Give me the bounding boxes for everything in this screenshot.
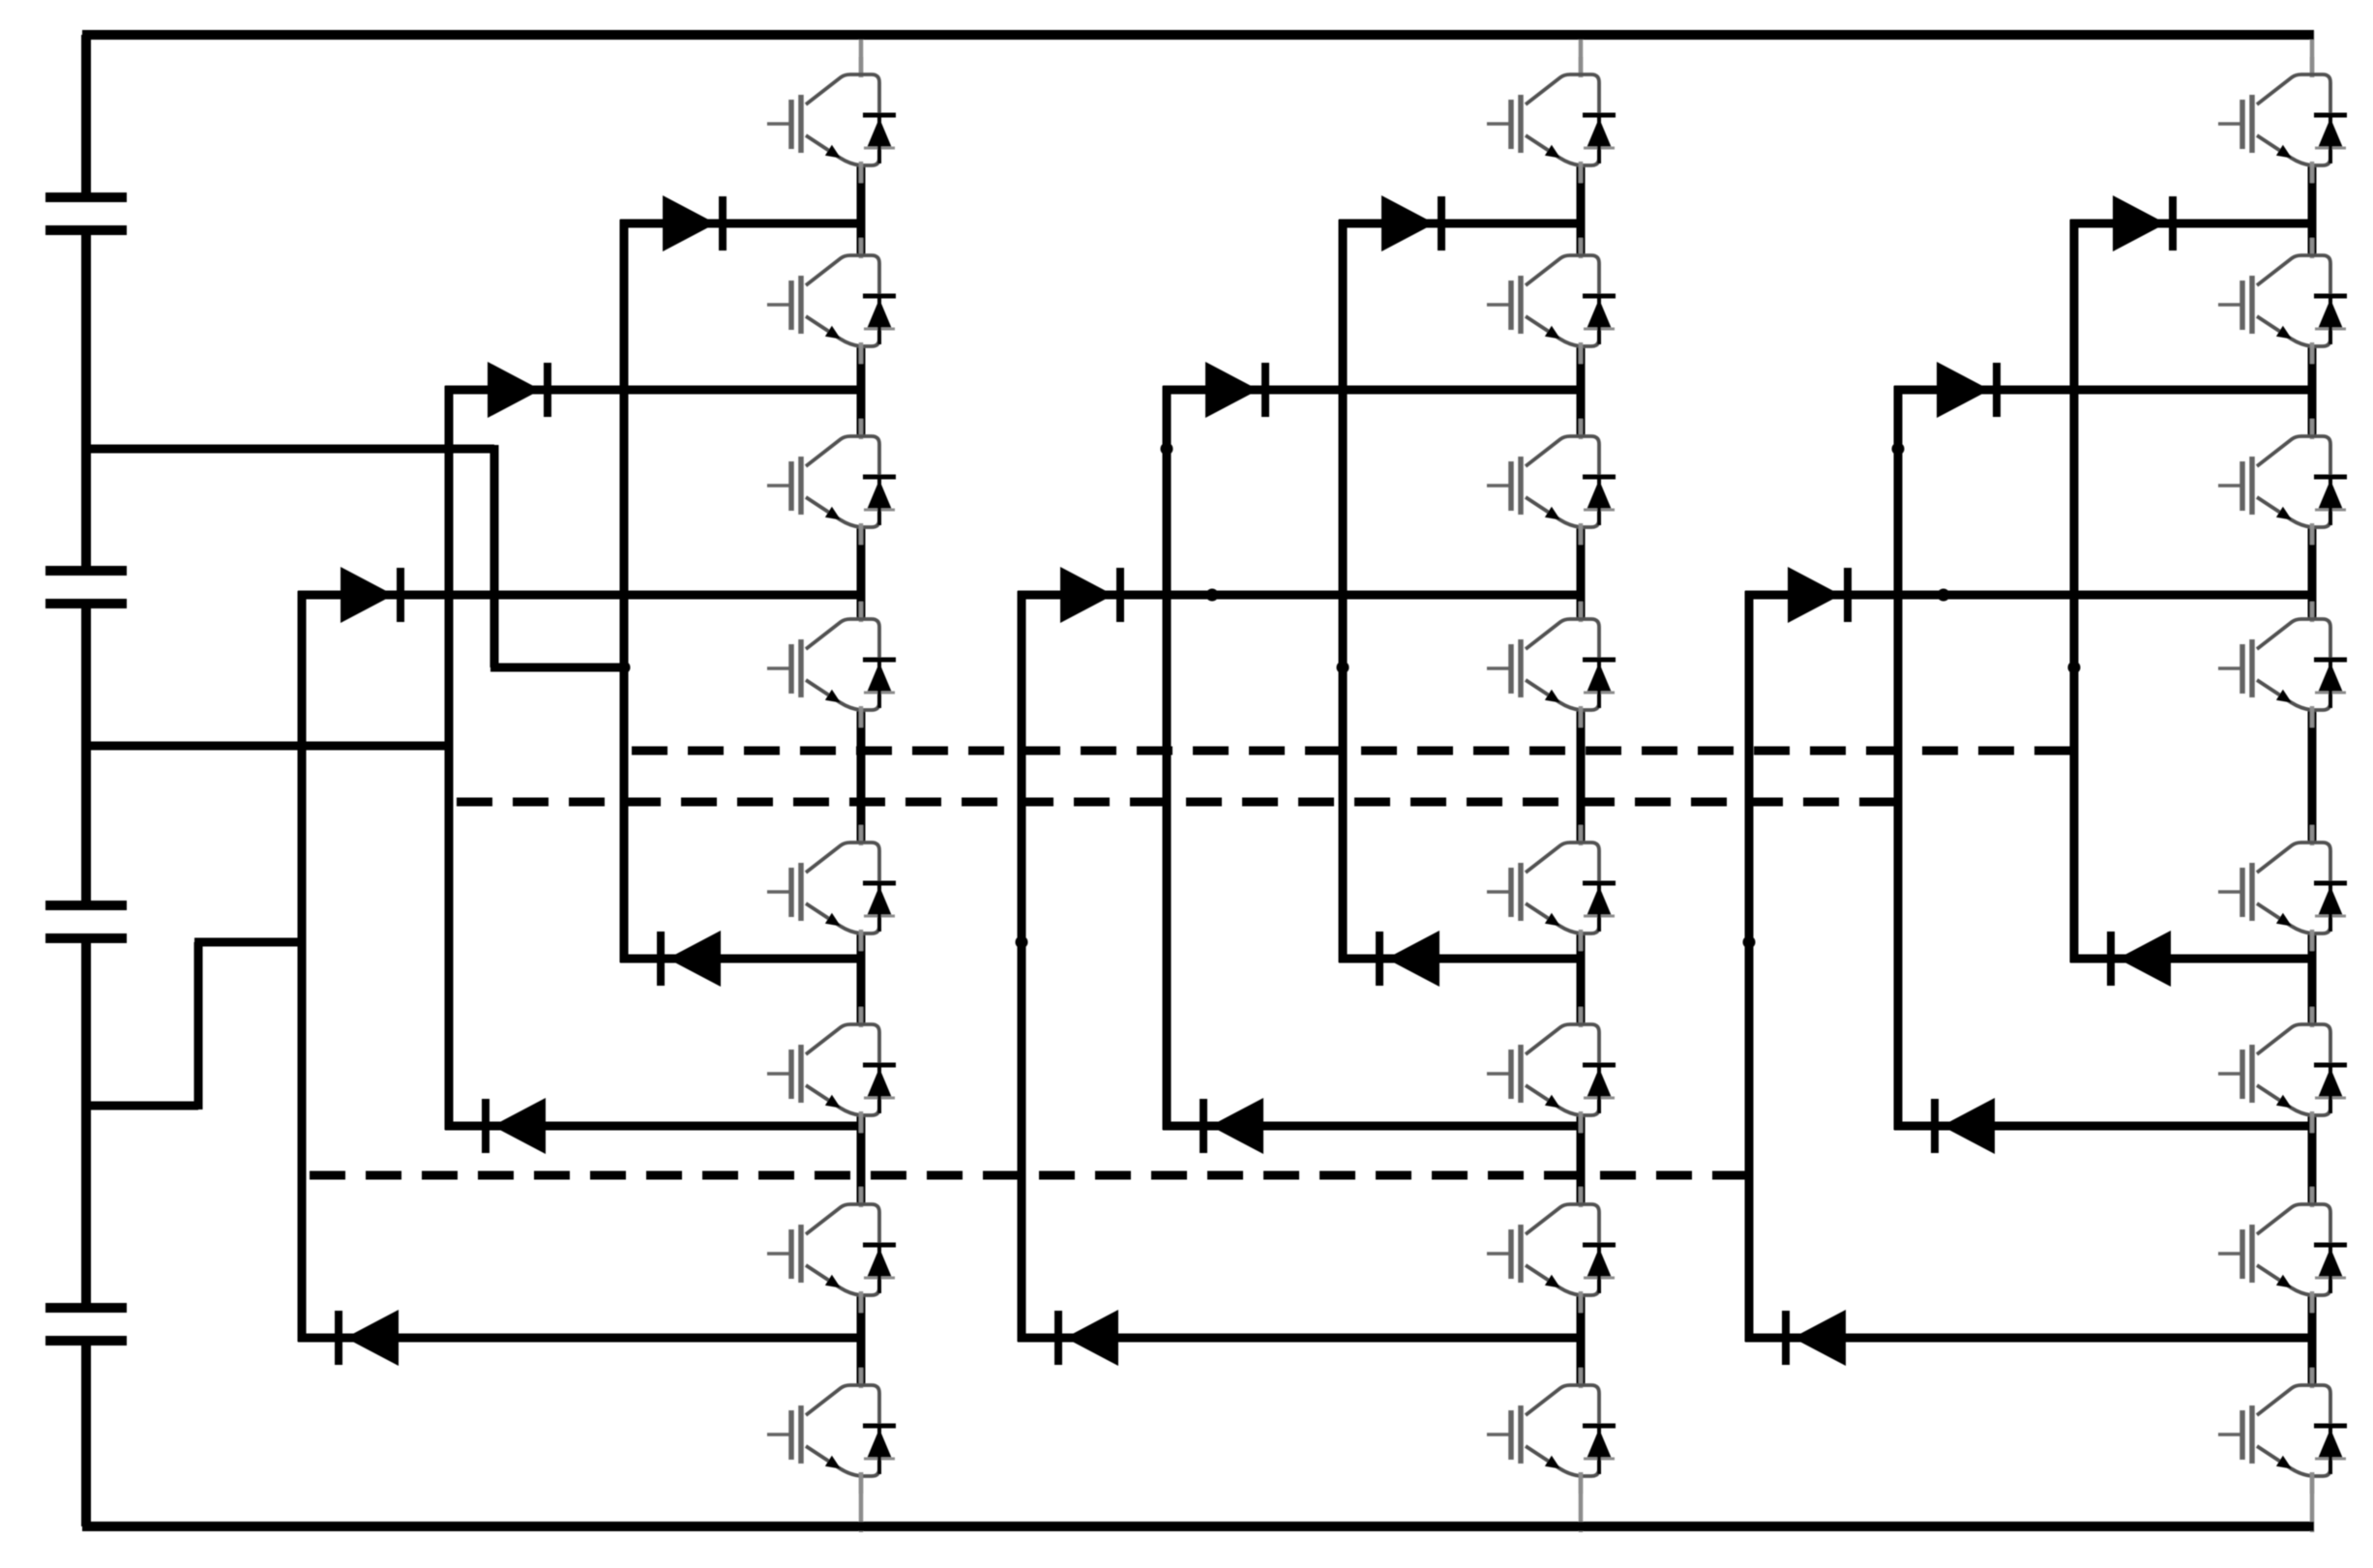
- wire: leg a segment through J2: [857, 345, 866, 436]
- diode Dc6 (clamp from J7): [1786, 1310, 1846, 1366]
- transistor Qb6 (IGBT with antiparallel diode): [1487, 1007, 1616, 1133]
- diode Db2 (clamp to J2): [1205, 362, 1265, 418]
- diode Db3 (clamp to J3): [1060, 567, 1120, 623]
- transistor Qa7 (IGBT with antiparallel diode): [767, 1187, 896, 1313]
- wire: row J3 leg b: [1018, 591, 1581, 600]
- wire: clamp vertical pair3 leg b: [1018, 591, 1026, 1342]
- wire: leg c segment through J2: [2308, 345, 2317, 436]
- wire: V1 jog horizontal to pair3: [194, 938, 306, 947]
- wire: row J5 leg a: [620, 955, 861, 963]
- transistor Qc4 (IGBT with antiparallel diode): [2218, 602, 2347, 727]
- transistor Qa5 (IGBT with antiparallel diode): [767, 825, 896, 951]
- diode Dc2 (clamp to J2): [1937, 362, 1997, 418]
- wire: leg b segment through J3: [1577, 526, 1586, 619]
- wire: leg a segment through J7: [857, 1294, 866, 1385]
- wire: V3 jog horizontal to pair1: [490, 664, 624, 672]
- transistor Qa6 (IGBT with antiparallel diode): [767, 1007, 896, 1133]
- transistor Qa2 (IGBT with antiparallel diode): [767, 238, 896, 364]
- wire: row J1 leg b: [1339, 220, 1581, 228]
- wire: clamp vertical pair3 leg a: [298, 591, 307, 1342]
- wire: top DC bus: [82, 30, 2314, 40]
- wire: leg b segment through J5: [1577, 932, 1586, 1024]
- capacitor C4: [45, 1303, 127, 1313]
- node dot: leg c row J3: [1938, 589, 1950, 602]
- node V2: tap wire from bus to pair2: [82, 742, 453, 751]
- wire: clamp vertical pair1 leg c: [2070, 220, 2079, 962]
- wire: row J6 leg b: [1163, 1122, 1581, 1131]
- node dot: leg b pair1: [1337, 662, 1350, 674]
- wire: row J7 leg c: [1745, 1334, 2312, 1343]
- wire: row J1 leg a: [620, 220, 861, 228]
- wire: V3 jog vertical: [490, 445, 499, 667]
- capacitor C1: [45, 192, 127, 202]
- wire: leg c segment through J6: [2308, 1114, 2317, 1204]
- wire: row J1 leg c: [2070, 220, 2312, 228]
- wire: left DC bus C1-C2: [81, 230, 91, 571]
- transistor Qa1 (IGBT with antiparallel diode): [767, 57, 896, 183]
- wire: left DC bus C2-C3: [81, 604, 91, 905]
- wire: row J6 leg a: [445, 1122, 861, 1131]
- wire: leg c segment through J7: [2308, 1294, 2317, 1385]
- diode Da1 (clamp to J1): [663, 195, 723, 251]
- transistor Qb5 (IGBT with antiparallel diode): [1487, 825, 1616, 951]
- diode Dc3 (clamp to J3): [1788, 567, 1848, 623]
- wire: leg c segment through J5: [2308, 932, 2317, 1024]
- wire: clamp vertical pair3 leg c: [1745, 591, 1754, 1342]
- wire: row J7 leg a: [298, 1334, 861, 1343]
- wire: clamp vertical pair1 leg a: [620, 220, 629, 962]
- node dot: leg c pair3: [1743, 936, 1756, 949]
- wire: leg c top stub (gray): [2310, 31, 2315, 77]
- node dot: leg a jog x row J3: [489, 589, 501, 602]
- wire: row J6 leg c: [1894, 1122, 2312, 1131]
- wire: clamp vertical pair1 leg b: [1339, 220, 1348, 962]
- wire: leg a top stub (gray): [859, 31, 864, 77]
- node dot: leg b pair3: [1016, 936, 1028, 949]
- transistor Qb2 (IGBT with antiparallel diode): [1487, 238, 1616, 364]
- diode Da4 (clamp from J5): [661, 931, 721, 987]
- wire: row J5 leg c: [2070, 955, 2312, 963]
- wire: leg c segment through J1: [2308, 164, 2317, 255]
- node dot: leg a tap V3 x pair2: [443, 443, 456, 456]
- transistor Qb1 (IGBT with antiparallel diode): [1487, 57, 1616, 183]
- node V1: tap wire from bus: [82, 1102, 198, 1110]
- diode Dc1 (clamp to J1): [2113, 195, 2173, 251]
- wire: bottom DC bus: [82, 1522, 2314, 1531]
- wire: leg b segment through J4: [1577, 709, 1586, 843]
- wire: leg b segment through J1: [1577, 164, 1586, 255]
- wire: leg b top stub (gray): [1579, 31, 1584, 77]
- wire: leg a segment through J1: [857, 164, 866, 255]
- node dot: leg c pair2: [1892, 443, 1905, 456]
- transistor Qc8 (IGBT with antiparallel diode): [2218, 1368, 2347, 1494]
- wire: dashed V2 bus: [457, 798, 1898, 807]
- diode Db4 (clamp from J5): [1379, 931, 1439, 987]
- wire: leg a segment through J6: [857, 1114, 866, 1204]
- wire: leg a bottom stub (gray): [859, 1472, 864, 1532]
- wire: leg c bottom stub (gray): [2310, 1472, 2315, 1532]
- wire: row J3 leg a: [298, 591, 861, 600]
- wire: row J2 leg b: [1163, 386, 1581, 395]
- diode Dc4 (clamp from J5): [2111, 931, 2171, 987]
- wire: row J5 leg b: [1339, 955, 1581, 963]
- diode Dc5 (clamp from J6): [1935, 1098, 1995, 1154]
- diode Db6 (clamp from J7): [1058, 1310, 1118, 1366]
- wire: leg b segment through J6: [1577, 1114, 1586, 1204]
- transistor Qc3 (IGBT with antiparallel diode): [2218, 419, 2347, 545]
- wire: left DC bus C3-C4: [81, 938, 91, 1308]
- wire: leg c segment through J3: [2308, 526, 2317, 619]
- transistor Qb8 (IGBT with antiparallel diode): [1487, 1368, 1616, 1494]
- wire: row J3 leg c: [1745, 591, 2312, 600]
- transistor Qb4 (IGBT with antiparallel diode): [1487, 602, 1616, 727]
- wire: leg c segment through J4: [2308, 709, 2317, 843]
- transistor Qb7 (IGBT with antiparallel diode): [1487, 1187, 1616, 1313]
- wire: left DC bus below C4: [81, 1341, 91, 1526]
- diode Db1 (clamp to J1): [1381, 195, 1441, 251]
- wire: clamp vertical pair2 leg a: [445, 386, 454, 1130]
- wire: leg a segment through J5: [857, 932, 866, 1024]
- node dot: leg a jog-pair1 junction: [618, 662, 631, 674]
- transistor Qa4 (IGBT with antiparallel diode): [767, 602, 896, 727]
- wire: dashed V3 bus: [632, 747, 2074, 755]
- capacitor C3: [45, 901, 127, 910]
- diode Da6 (clamp from J7): [339, 1310, 399, 1366]
- wire: V1 jog vertical: [194, 942, 203, 1109]
- wire: dashed V1 bus: [310, 1171, 1749, 1180]
- transistor Qc2 (IGBT with antiparallel diode): [2218, 238, 2347, 364]
- wire: clamp vertical pair2 leg c: [1894, 386, 1903, 1130]
- wire: leg a segment through J4: [857, 709, 866, 843]
- wire: leg b segment through J7: [1577, 1294, 1586, 1385]
- diode Da5 (clamp from J6): [486, 1098, 546, 1154]
- wire: leg b segment through J2: [1577, 345, 1586, 436]
- transistor Qb3 (IGBT with antiparallel diode): [1487, 419, 1616, 545]
- diode Db5 (clamp from J6): [1203, 1098, 1263, 1154]
- wire: row J7 leg b: [1018, 1334, 1581, 1343]
- diode Da2 (clamp to J2): [488, 362, 548, 418]
- wire: leg a segment through J3: [857, 526, 866, 619]
- wire: row J2 leg a: [445, 386, 861, 395]
- transistor Qc5 (IGBT with antiparallel diode): [2218, 825, 2347, 951]
- transistor Qc1 (IGBT with antiparallel diode): [2218, 57, 2347, 183]
- transistor Qa3 (IGBT with antiparallel diode): [767, 419, 896, 545]
- node dot: leg b pair2: [1161, 443, 1173, 456]
- transistor Qc6 (IGBT with antiparallel diode): [2218, 1007, 2347, 1133]
- transistor Qc7 (IGBT with antiparallel diode): [2218, 1187, 2347, 1313]
- wire: leg b bottom stub (gray): [1579, 1472, 1584, 1532]
- wire: left DC bus segment above C1: [81, 35, 91, 197]
- node dot: leg b row J3: [1206, 589, 1219, 602]
- node V3: tap wire from bus: [82, 445, 494, 454]
- wire: clamp vertical pair2 leg b: [1163, 386, 1172, 1130]
- capacitor C2: [45, 566, 127, 576]
- wire: row J2 leg c: [1894, 386, 2312, 395]
- transistor Qa8 (IGBT with antiparallel diode): [767, 1368, 896, 1494]
- diode Da3 (clamp to J3): [341, 567, 400, 623]
- node dot: leg c pair1: [2068, 662, 2081, 674]
